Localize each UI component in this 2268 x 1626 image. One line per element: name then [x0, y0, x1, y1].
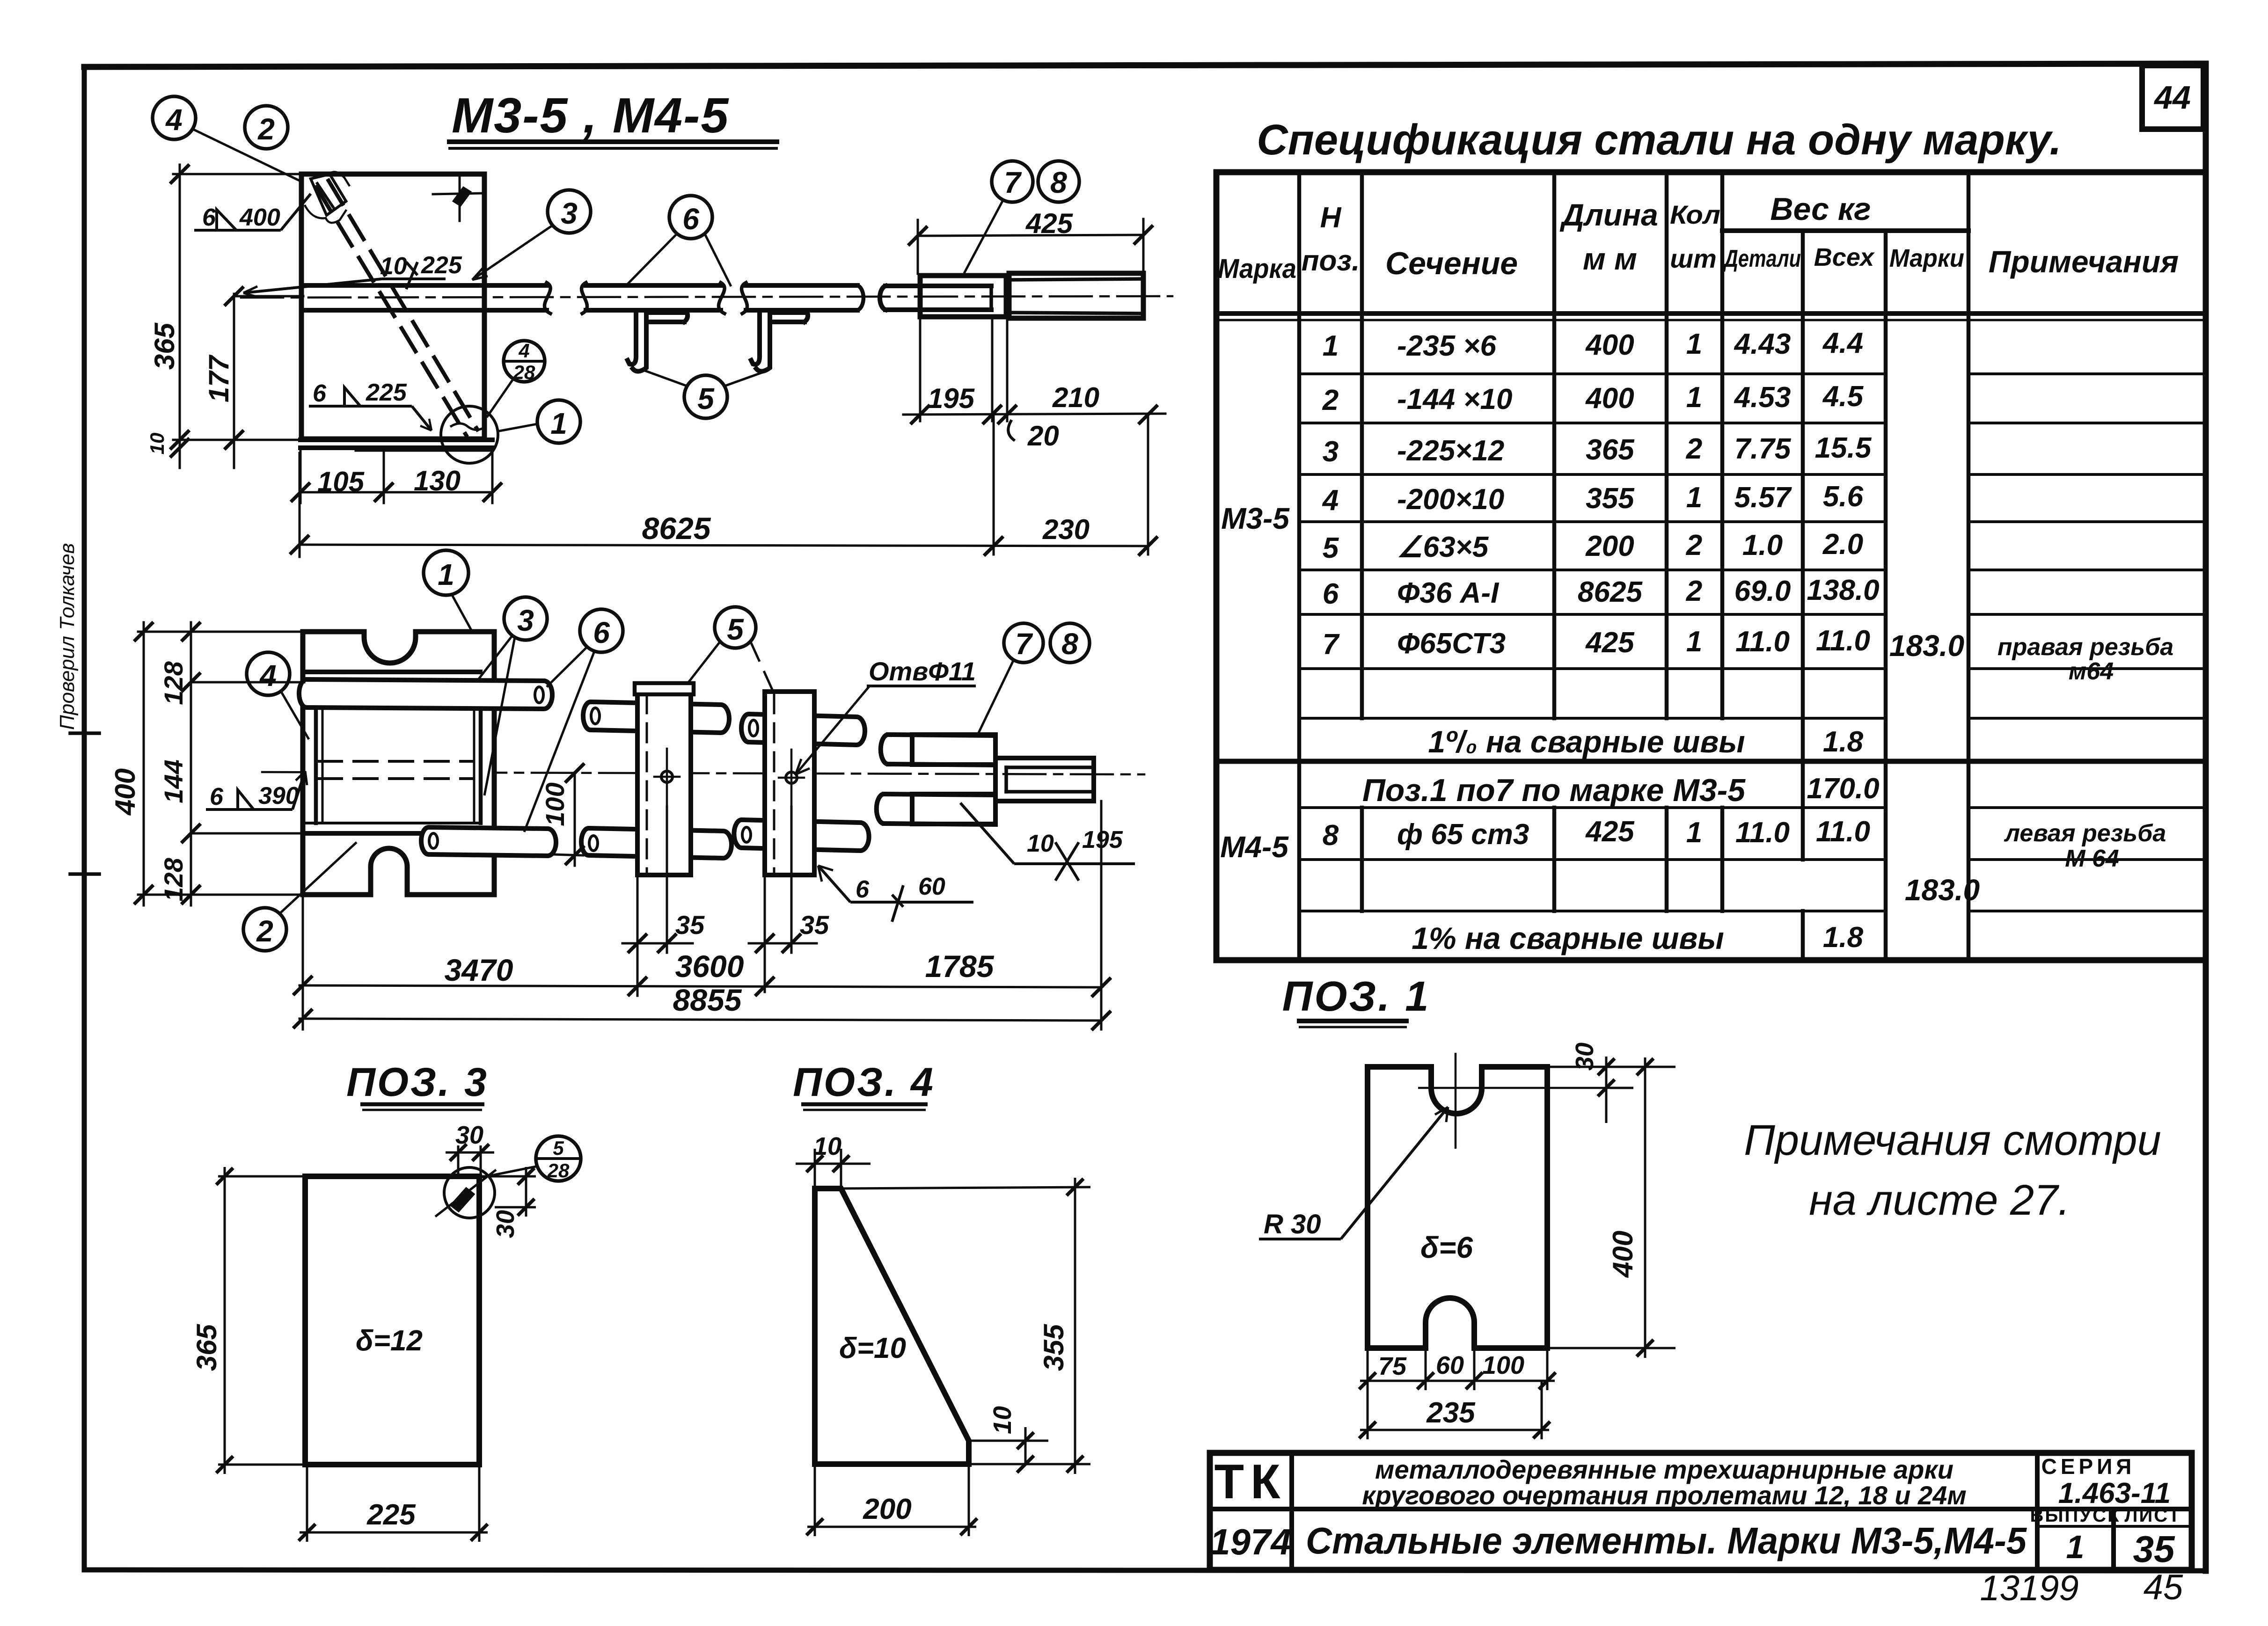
- svg-text:4.5: 4.5: [1822, 380, 1864, 413]
- svg-text:355: 355: [1038, 1323, 1069, 1371]
- POZ.3 corner weld detail circle: [435, 1167, 496, 1218]
- svg-text:Длина: Длина: [1559, 197, 1658, 232]
- svg-text:35: 35: [800, 910, 829, 940]
- table header texts: [1218, 191, 2179, 284]
- POZ.4 dim 355: [841, 1178, 1090, 1474]
- vertical: sechenie/dlina: [1552, 172, 1557, 718]
- svg-text:1785: 1785: [925, 949, 995, 984]
- svg-text:30: 30: [1571, 1043, 1599, 1071]
- POZ.1 dim 400: [1547, 1057, 1675, 1358]
- VIEW A weld symbol 6\400: [194, 194, 311, 230]
- svg-text:Примечания: Примечания: [1989, 244, 2179, 279]
- POZ.4 dim 10 (right small): [969, 1427, 1048, 1473]
- rods at second P5: [734, 714, 869, 851]
- dim line 8855: [294, 1010, 1110, 1029]
- dim 8625 line: [291, 453, 1148, 557]
- svg-text:225: 225: [421, 252, 462, 279]
- svg-text:Сечение: Сечение: [1385, 246, 1518, 281]
- svg-text:δ=10: δ=10: [839, 1332, 906, 1364]
- rod R6 segment 2: [582, 283, 725, 314]
- svg-text:Вес кг: Вес кг: [1770, 191, 1871, 227]
- svg-text:3470: 3470: [445, 953, 513, 987]
- rod R6 segment 1 (through plate): [302, 283, 550, 314]
- left dims 400 and 128/144/128: [135, 622, 304, 905]
- svg-text:11.0: 11.0: [1816, 625, 1870, 657]
- svg-text:Кол: Кол: [1670, 200, 1720, 229]
- top rod R6 (plan): [299, 679, 552, 709]
- plate P2 (vertical gusset, elevation): [301, 174, 484, 439]
- svg-text:СЕРИЯ: СЕРИЯ: [2041, 1454, 2136, 1479]
- POZ.4 plate outline: [815, 1189, 969, 1464]
- svg-text:10: 10: [988, 1406, 1017, 1434]
- svg-text:6: 6: [682, 202, 699, 236]
- POZ.4 dim 10 (top): [796, 1149, 871, 1189]
- svg-text:7: 7: [1004, 166, 1022, 199]
- svg-text:365: 365: [149, 322, 180, 370]
- svg-text:100: 100: [540, 782, 570, 826]
- marker circle 2: [245, 106, 288, 149]
- svg-text:4: 4: [518, 340, 529, 362]
- svg-text:10: 10: [813, 1132, 841, 1160]
- svg-text:8625: 8625: [1578, 576, 1643, 608]
- POZ.3 weld reference circle 5/28: [482, 1136, 581, 1181]
- svg-text:3: 3: [561, 197, 578, 230]
- svg-text:2: 2: [1686, 575, 1702, 607]
- vertical: kol/detali: [1720, 172, 1725, 718]
- rod R6 segment 3: [742, 283, 863, 314]
- POZ.3 dim 30 (top): [446, 1144, 494, 1176]
- svg-text:2.0: 2.0: [1822, 528, 1863, 561]
- svg-text:425: 425: [1585, 627, 1635, 659]
- dim 425: [909, 219, 1152, 274]
- svg-text:11.0: 11.0: [1816, 816, 1870, 848]
- svg-text:75: 75: [1378, 1352, 1407, 1380]
- POZ.4 heading: [793, 1060, 935, 1110]
- svg-text:100: 100: [1482, 1351, 1524, 1379]
- svg-text:225: 225: [366, 379, 407, 406]
- svg-text:2: 2: [256, 914, 273, 948]
- body row lines: [1299, 372, 1886, 375]
- svg-text:200: 200: [1585, 530, 1634, 562]
- svg-text:5: 5: [727, 612, 744, 646]
- svg-text:128: 128: [159, 857, 188, 901]
- vertical: poz: [1360, 172, 1364, 718]
- dim 195 / 210 line: [903, 318, 1165, 440]
- dim 105 / 130: [292, 448, 501, 503]
- svg-text:ф 65 ст3: ф 65 ст3: [1397, 818, 1529, 851]
- vertical: detali/vsekh: [1801, 231, 1805, 860]
- svg-text:М3-5 , М4-5: М3-5 , М4-5: [452, 88, 729, 143]
- left dims 365 / 177 / 10: [171, 165, 303, 468]
- svg-text:левая резьба: левая резьба: [2004, 820, 2166, 847]
- POZ.1 dim 235: [1359, 1381, 1550, 1439]
- svg-text:144: 144: [159, 759, 188, 803]
- svg-text:δ=12: δ=12: [356, 1325, 423, 1357]
- welded end plate blob at plate top-left: [305, 172, 349, 223]
- vertical: vsekh/marki: [1884, 231, 1888, 960]
- svg-text:5: 5: [1323, 532, 1339, 564]
- svg-text:425: 425: [1025, 208, 1074, 239]
- svg-text:4: 4: [165, 103, 183, 137]
- POZ.3 dim 30 (right, rotated): [481, 1167, 536, 1217]
- svg-text:поз.: поз.: [1302, 245, 1360, 277]
- svg-text:400: 400: [1585, 382, 1634, 415]
- ves kg underline: [1722, 228, 1968, 233]
- svg-text:на листе 27.: на листе 27.: [1809, 1176, 2070, 1224]
- svg-text:4: 4: [259, 659, 277, 693]
- svg-text:365: 365: [1586, 434, 1635, 466]
- svg-text:6: 6: [856, 876, 870, 903]
- svg-text:4: 4: [1322, 484, 1339, 517]
- axis line of rod (node axis): [241, 296, 1172, 298]
- svg-text:7: 7: [1323, 628, 1340, 661]
- svg-text:177: 177: [203, 354, 234, 402]
- POZ.4 dim 200: [806, 1464, 977, 1536]
- dims 35 (first plate): [622, 807, 693, 953]
- svg-text:Спецификация стали на одну мар: Спецификация стали на одну марку.: [1257, 116, 2062, 164]
- svg-text:6: 6: [210, 783, 224, 810]
- svg-text:365: 365: [191, 1323, 222, 1371]
- svg-text:390: 390: [258, 782, 299, 809]
- svg-text:6: 6: [1323, 578, 1339, 610]
- svg-text:183.0: 183.0: [1905, 873, 1980, 907]
- weld reference circle 4/28: [487, 341, 545, 417]
- svg-text:1.0: 1.0: [1742, 529, 1783, 561]
- svg-text:1º/₀ на сварные швы: 1º/₀ на сварные швы: [1428, 724, 1745, 759]
- svg-text:8: 8: [1323, 819, 1339, 852]
- svg-text:ТК: ТК: [1214, 1455, 1287, 1509]
- marker circle 4 (top left): [153, 96, 303, 182]
- svg-text:30: 30: [491, 1210, 519, 1238]
- angle bracket L5 first: [628, 311, 688, 372]
- svg-text:Примечания смотри: Примечания смотри: [1744, 1116, 2161, 1164]
- POZ.3 heading: [346, 1060, 489, 1110]
- POZ.1 dims 75/60/100: [1359, 1348, 1556, 1439]
- svg-text:м м: м м: [1583, 241, 1637, 276]
- svg-text:7.75: 7.75: [1734, 433, 1792, 465]
- svg-text:-200×10: -200×10: [1397, 483, 1504, 516]
- svg-text:1% на сварные швы: 1% на сварные швы: [1412, 921, 1724, 955]
- header bottom double line: [1216, 311, 2206, 316]
- svg-text:230: 230: [1042, 514, 1090, 545]
- lower rod stub with plate: [877, 794, 995, 824]
- dim 100: [552, 765, 583, 866]
- svg-text:1: 1: [438, 558, 454, 591]
- svg-text:∠63×5: ∠63×5: [1397, 531, 1489, 563]
- VIEW B dim texts: [110, 661, 995, 1017]
- svg-text:5: 5: [553, 1137, 564, 1159]
- VIEW B turnbuckle plan P7/P8: [877, 735, 1094, 824]
- svg-text:28: 28: [547, 1159, 570, 1181]
- svg-text:М4-5: М4-5: [1220, 830, 1289, 864]
- svg-text:δ=6: δ=6: [1420, 1231, 1473, 1264]
- svg-text:13199: 13199: [1980, 1568, 2078, 1608]
- VIEW B marker circle 1: [424, 550, 473, 633]
- dims 35 (second plate): [749, 807, 817, 992]
- svg-text:Ф65СТ3: Ф65СТ3: [1397, 627, 1506, 660]
- vertical: dlina/kol: [1665, 172, 1669, 718]
- svg-text:8: 8: [1061, 627, 1078, 661]
- svg-text:45: 45: [2144, 1568, 2183, 1607]
- svg-text:130: 130: [414, 465, 461, 496]
- svg-text:8855: 8855: [673, 983, 742, 1017]
- svg-text:Марки: Марки: [1889, 244, 1964, 272]
- VIEW A right: turnbuckle coupling P7/P8: [880, 273, 1143, 318]
- fold tick marks on left frame: [70, 733, 99, 874]
- vertical: marki/primechaniya: [1967, 172, 1971, 960]
- dim 230 line: [985, 414, 1156, 554]
- VIEW A weld label 6 |>225: [309, 387, 432, 430]
- svg-text:правая резьба: правая резьба: [1997, 634, 2173, 661]
- svg-text:3: 3: [517, 604, 534, 637]
- svg-text:10: 10: [146, 433, 168, 455]
- svg-text:8: 8: [1050, 166, 1067, 199]
- marker circle 1 (view A): [497, 400, 580, 443]
- marker circle 3: [472, 190, 591, 280]
- svg-text:5: 5: [697, 382, 715, 416]
- VIEW B marker circle 3: [478, 597, 547, 795]
- svg-text:2: 2: [1322, 384, 1339, 416]
- VIEW B marker circle 2: [243, 842, 357, 951]
- svg-text:35: 35: [2133, 1528, 2175, 1570]
- svg-text:7: 7: [1015, 627, 1033, 661]
- svg-text:20: 20: [1027, 420, 1059, 452]
- svg-text:44: 44: [2153, 79, 2191, 116]
- svg-text:200: 200: [863, 1493, 911, 1525]
- svg-text:3: 3: [1323, 436, 1339, 468]
- svg-text:195: 195: [928, 383, 975, 414]
- svg-text:2: 2: [1686, 433, 1702, 465]
- svg-text:5.57: 5.57: [1734, 481, 1792, 514]
- coupler bar P8 plan: [995, 758, 1094, 801]
- VIEW B stiffener plates P5 with rods: [581, 683, 869, 875]
- svg-text:1: 1: [1686, 817, 1702, 849]
- svg-text:60: 60: [1436, 1351, 1464, 1379]
- POZ.3 dim 225: [299, 1465, 488, 1542]
- svg-text:6: 6: [202, 204, 216, 231]
- base plate P1 (bottom strip): [300, 440, 492, 451]
- VIEW B dimensions: [135, 622, 1110, 1029]
- svg-text:10: 10: [380, 253, 407, 280]
- svg-text:М 64: М 64: [2065, 845, 2119, 872]
- svg-text:5.6: 5.6: [1823, 481, 1864, 513]
- svg-text:4.43: 4.43: [1734, 328, 1791, 360]
- svg-text:1.8: 1.8: [1823, 921, 1864, 954]
- svg-text:69.0: 69.0: [1734, 575, 1791, 607]
- svg-text:1.463-11: 1.463-11: [2058, 1477, 2171, 1509]
- marker circle 6: [625, 196, 731, 286]
- VIEW B marker circle 4: [247, 652, 309, 739]
- row 8: [1323, 816, 1870, 852]
- svg-text:28: 28: [513, 361, 535, 383]
- svg-text:М3-5: М3-5: [1221, 502, 1290, 535]
- svg-text:ПОЗ. 4: ПОЗ. 4: [793, 1060, 935, 1105]
- svg-text:8625: 8625: [642, 511, 711, 546]
- VIEW B label Otv F11: [796, 686, 976, 774]
- svg-text:35: 35: [675, 910, 705, 940]
- svg-text:1: 1: [1323, 330, 1339, 362]
- notes text: [1744, 1116, 2161, 1224]
- svg-text:1: 1: [1686, 626, 1702, 658]
- vertical: Marka: [1297, 172, 1302, 960]
- diagonal brace (dashed, strut): [316, 181, 477, 435]
- svg-text:195: 195: [1082, 826, 1123, 853]
- svg-text:1: 1: [1686, 481, 1702, 514]
- svg-text:210: 210: [1052, 382, 1099, 413]
- svg-text:Детали: Детали: [1723, 245, 1801, 272]
- upper rod stub with plate: [881, 735, 995, 765]
- angle bracket L5 second: [751, 311, 808, 372]
- svg-text:1.8: 1.8: [1823, 726, 1864, 758]
- POZ.3 plate outline: [305, 1176, 479, 1465]
- sleeve P7: [920, 276, 1006, 317]
- VIEW A dim texts: [146, 208, 1099, 546]
- small anchor detail at plate top right: [433, 177, 482, 221]
- svg-text:металлодеревянные трехшарнирн: металлодеревянные трехшарнирные арки: [1375, 1455, 1953, 1484]
- table grid: [1216, 172, 2206, 960]
- svg-text:170.0: 170.0: [1807, 773, 1879, 805]
- svg-text:3600: 3600: [675, 949, 744, 984]
- svg-text:кругового очертания пролетам: кругового очертания пролетами 12, 18 и 2…: [1362, 1480, 1967, 1510]
- POZ.1 heading: [1282, 973, 1431, 1027]
- svg-text:ОтвФ11: ОтвФ11: [869, 656, 976, 686]
- svg-text:Н: Н: [1320, 202, 1342, 234]
- POZ.1 axis lines: [1418, 1053, 1610, 1149]
- plate P2 inner edges (plan): [316, 682, 481, 823]
- svg-text:-235 ×6: -235 ×6: [1397, 330, 1497, 362]
- VIEW A dimensions: [171, 165, 1165, 557]
- svg-text:11.0: 11.0: [1735, 626, 1790, 658]
- svg-text:ЛИСТ: ЛИСТ: [2124, 1505, 2181, 1526]
- plate P5 first (white): [635, 683, 694, 875]
- VIEW B marker circle 6: [524, 609, 623, 832]
- marker circle 5 with leaders to brackets: [642, 370, 768, 418]
- VIEW A weld label 10 K 225: [243, 262, 446, 297]
- primechaniya column row lines: [1968, 372, 2206, 375]
- svg-text:ВЫПУСК: ВЫПУСК: [2030, 1505, 2121, 1526]
- svg-text:Поз.1 по7 по марке М3-5: Поз.1 по7 по марке М3-5: [1362, 773, 1746, 808]
- svg-text:1: 1: [1686, 381, 1702, 414]
- svg-text:-225×12: -225×12: [1397, 435, 1504, 467]
- svg-text:R 30: R 30: [1264, 1209, 1321, 1240]
- svg-text:1974: 1974: [1210, 1521, 1291, 1562]
- rod stub entering coupling: [880, 286, 991, 310]
- svg-text:425: 425: [1585, 816, 1635, 848]
- VIEW A detail circle at joint: [441, 406, 498, 463]
- svg-text:105: 105: [317, 466, 365, 497]
- svg-text:235: 235: [1426, 1397, 1476, 1429]
- outer border: [1216, 172, 2206, 960]
- VIEW B label 10x195: [960, 803, 1135, 881]
- svg-text:ПОЗ. 1: ПОЗ. 1: [1282, 973, 1431, 1020]
- page number box 44: [2142, 66, 2203, 129]
- svg-text:Ф36 А-I: Ф36 А-I: [1397, 577, 1500, 609]
- POZ.1 dim 30 (top right): [1547, 1057, 1675, 1123]
- svg-text:ПОЗ. 3: ПОЗ. 3: [346, 1060, 489, 1105]
- svg-text:Проверил Толкачев: Проверил Толкачев: [56, 543, 79, 730]
- svg-text:400: 400: [1585, 329, 1634, 361]
- VIEW B weld label 6|>390: [206, 771, 307, 809]
- plate P3 edge bands (plan): [303, 672, 480, 833]
- svg-text:Всех: Всех: [1814, 243, 1875, 271]
- VIEW B weld label 6 K 60: [818, 866, 973, 922]
- POZ.3 dim 365: [216, 1167, 307, 1474]
- VIEW B marker circles 7 8: [978, 623, 1090, 734]
- svg-text:-144 ×10: -144 ×10: [1397, 383, 1513, 416]
- svg-text:Марка: Марка: [1218, 254, 1296, 284]
- hidden edges dashed: [318, 761, 472, 779]
- VIEW B marker circle 5: [687, 607, 773, 692]
- svg-text:183.0: 183.0: [1889, 629, 1964, 663]
- svg-text:128: 128: [159, 661, 188, 705]
- svg-text:4.53: 4.53: [1734, 381, 1791, 414]
- svg-text:1: 1: [1686, 328, 1702, 360]
- svg-text:шт: шт: [1670, 244, 1717, 273]
- POZ.1 label R30 with leader: [1259, 1107, 1448, 1239]
- section divider M3-5 / M4-5: [1216, 759, 2206, 764]
- svg-text:400: 400: [239, 204, 280, 231]
- svg-text:355: 355: [1586, 482, 1635, 515]
- svg-text:2: 2: [257, 112, 275, 146]
- svg-text:400: 400: [110, 768, 141, 816]
- svg-text:30: 30: [455, 1121, 483, 1149]
- svg-text:2: 2: [1686, 529, 1702, 561]
- bottom rod R6 (plan): [421, 827, 556, 856]
- dim line 3470/3600/1785: [294, 801, 1110, 1029]
- svg-text:1: 1: [2066, 1529, 2085, 1565]
- svg-text:1: 1: [550, 407, 567, 440]
- svg-text:400: 400: [1607, 1231, 1639, 1278]
- M4-5 row lines: [1299, 806, 1886, 809]
- marker circles 7 8 (view A): [964, 161, 1079, 273]
- svg-text:Стальные элементы. Марки М3-5: Стальные элементы. Марки М3-5,М4-5: [1306, 1520, 2027, 1561]
- svg-text:6: 6: [593, 616, 610, 649]
- svg-text:м64: м64: [2069, 658, 2114, 685]
- drawing title M3-5, M4-5: [447, 88, 779, 148]
- svg-text:225: 225: [366, 1499, 416, 1531]
- plate P5 second (white): [765, 692, 814, 875]
- svg-text:10: 10: [1027, 830, 1054, 857]
- svg-text:11.0: 11.0: [1735, 817, 1790, 849]
- svg-text:15.5: 15.5: [1815, 432, 1872, 464]
- view B axis line: [262, 772, 1144, 774]
- main plate P1 (plan, white over rods): [303, 632, 494, 895]
- rods at first P5: [581, 702, 732, 858]
- svg-text:138.0: 138.0: [1807, 574, 1879, 606]
- svg-text:60: 60: [918, 873, 945, 900]
- table body rows: [1322, 327, 1880, 661]
- svg-text:6: 6: [313, 380, 327, 407]
- POZ.1 plate outline with notches: [1368, 1067, 1547, 1348]
- svg-text:4.4: 4.4: [1822, 327, 1863, 359]
- coupler bar P8 with rod: [1009, 273, 1143, 318]
